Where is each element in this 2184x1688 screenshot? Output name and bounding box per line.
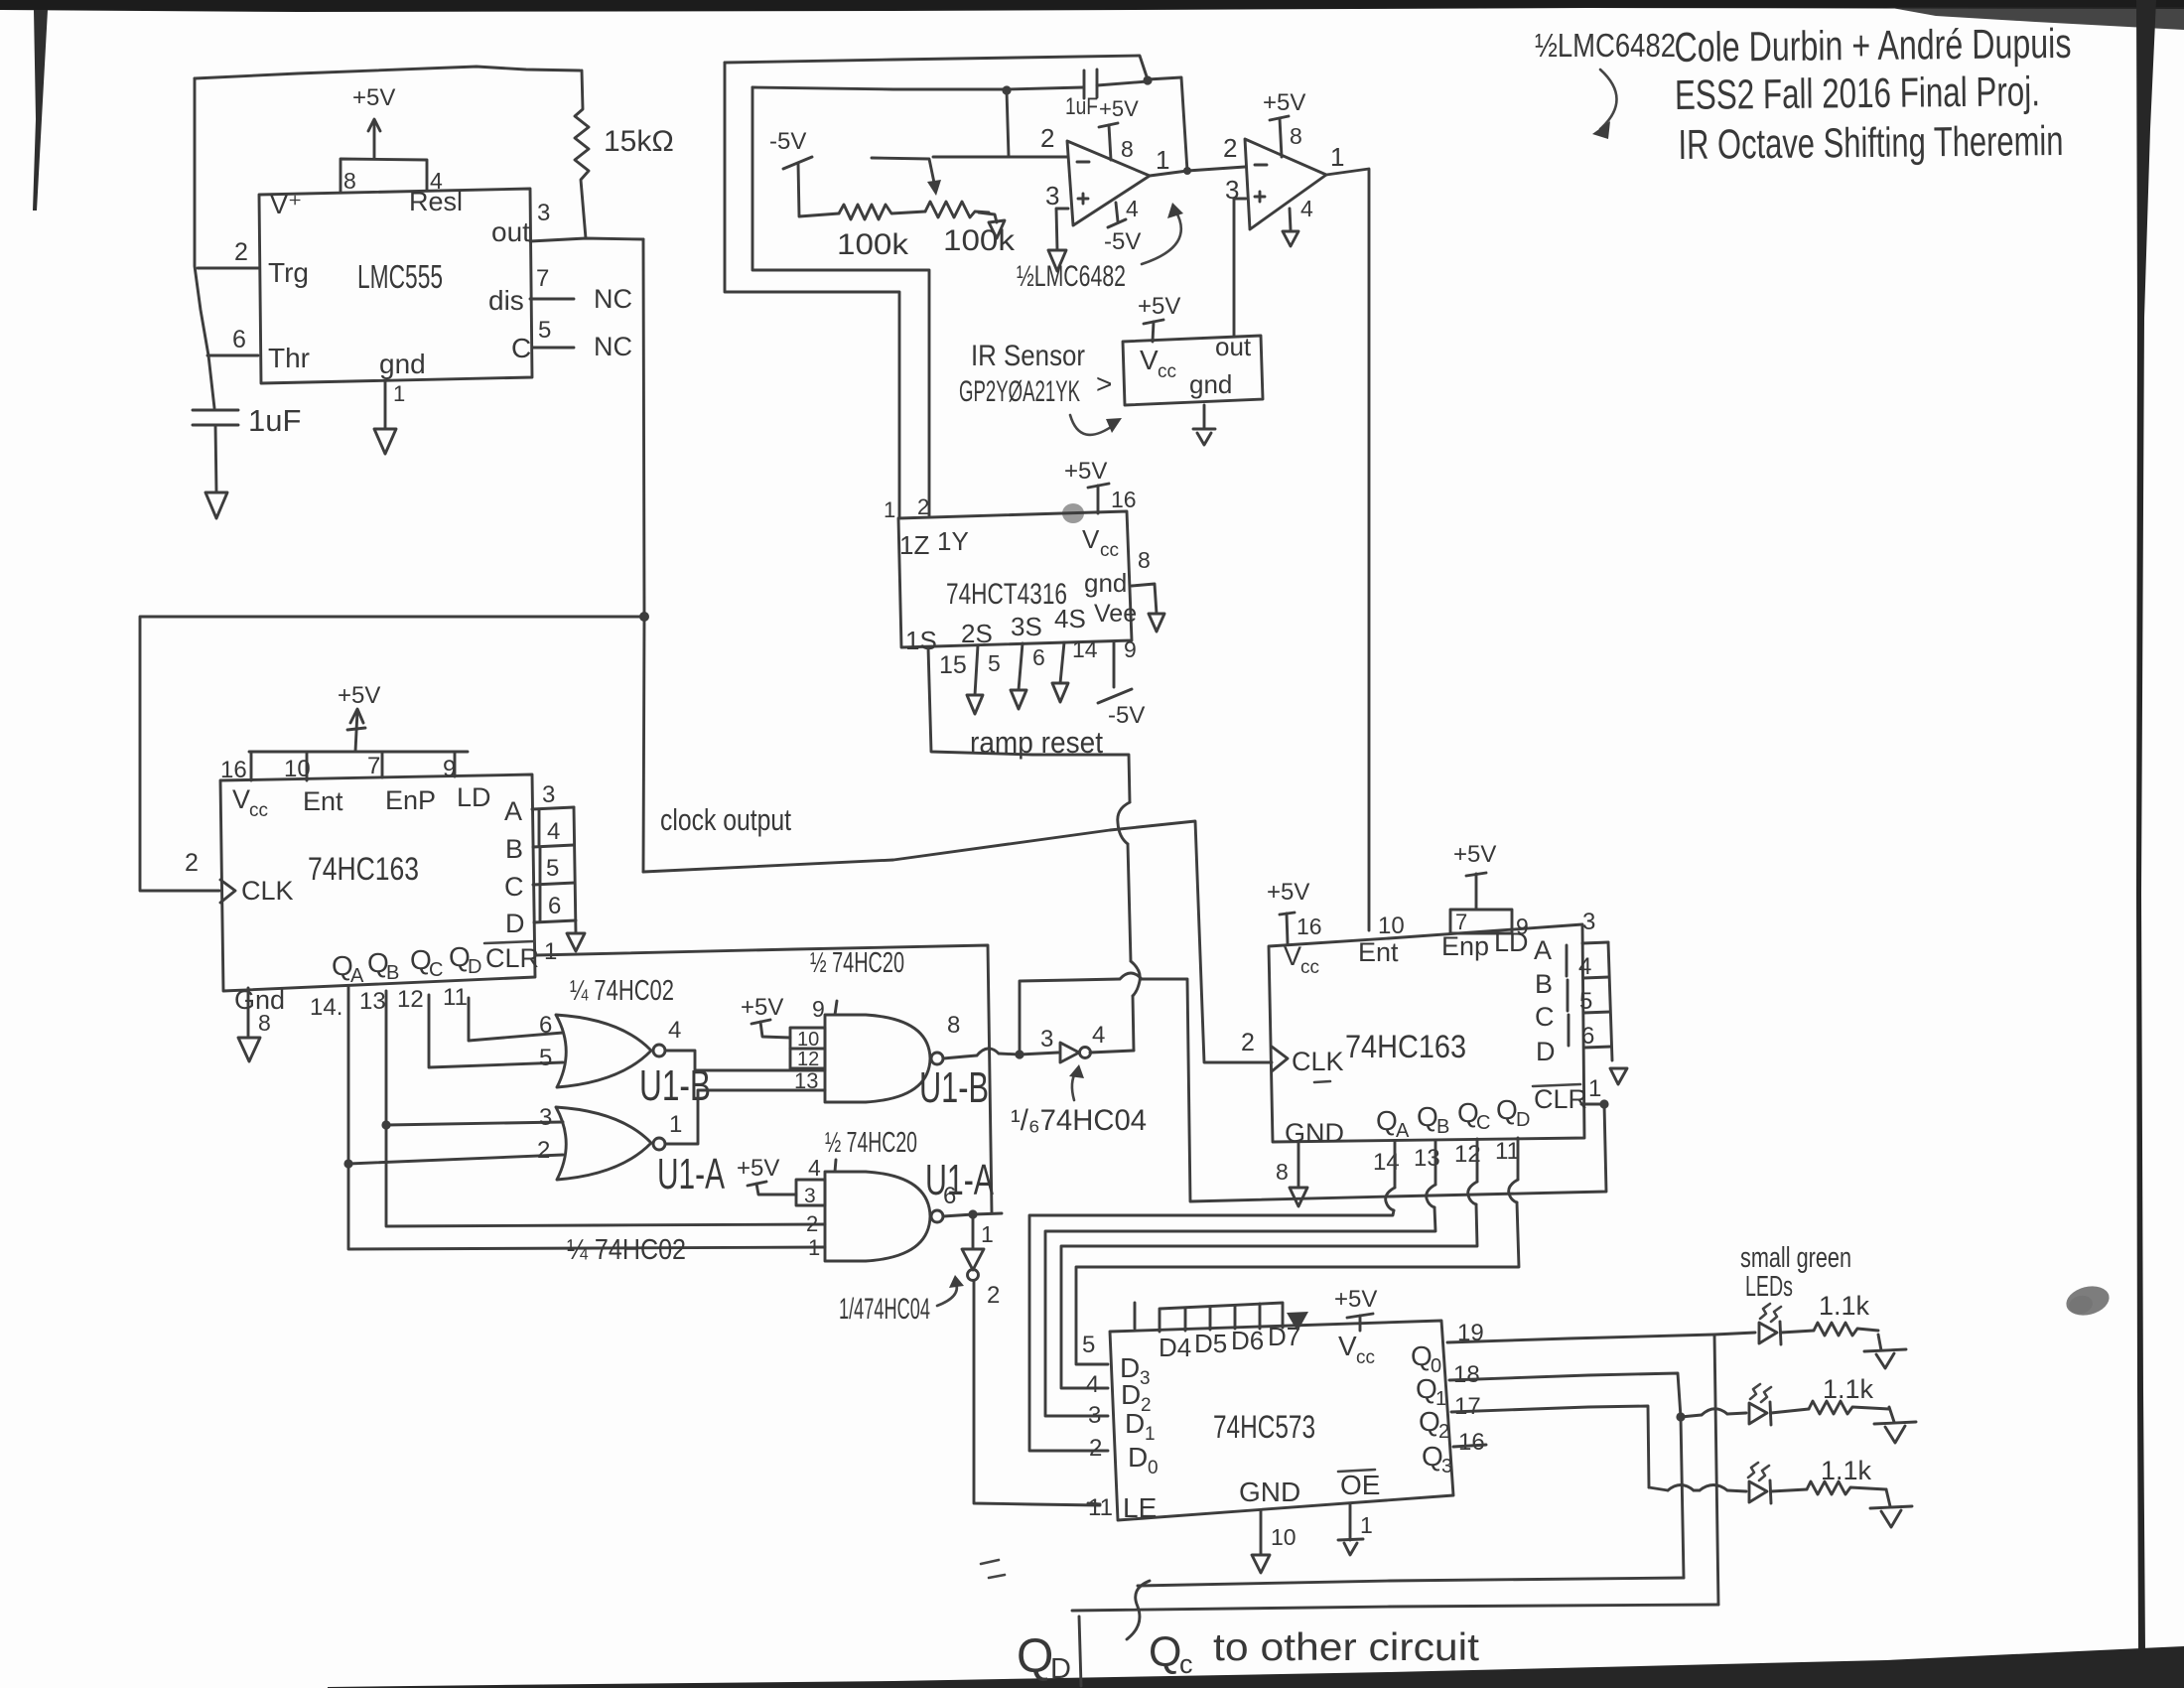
svg-text:LMC555: LMC555 (357, 258, 443, 295)
svg-text:5: 5 (539, 1045, 552, 1071)
wire: NOR-A out to NAND-B pin13 (665, 1090, 825, 1144)
svg-text:4: 4 (547, 818, 560, 845)
resistor R1 1.1k (1814, 1323, 1878, 1336)
svg-text:4: 4 (1126, 196, 1139, 221)
resistor 15k (575, 70, 589, 238)
NAND gate U1-A (74HC20) (825, 1172, 930, 1261)
wire: Trg pin 2 (198, 267, 258, 270)
svg-text:D5: D5 (1194, 1329, 1227, 1358)
svg-text:½ 74HC20: ½ 74HC20 (825, 1127, 917, 1159)
pin 6 ground (1019, 643, 1023, 690)
wire: inverting input op-amp1 (933, 156, 1067, 159)
wire: Q1 to LED2 and bottom rail (1449, 1373, 1681, 1417)
svg-text:4: 4 (1086, 1371, 1099, 1398)
ground below IR sensor (1203, 405, 1206, 429)
LED D2 (1750, 1384, 1771, 1402)
chip 74HC573 box (1110, 1321, 1453, 1520)
svg-text:16: 16 (220, 757, 247, 783)
wire: QA to 573 D0 (1394, 1141, 1397, 1188)
svg-text:10: 10 (1378, 913, 1405, 939)
svg-text:Q: Q (1411, 1340, 1433, 1371)
LED D1 (1760, 1304, 1781, 1322)
svg-text:10: 10 (1271, 1524, 1297, 1550)
svg-text:2: 2 (234, 238, 248, 266)
wire: dis NC stub (530, 298, 574, 301)
svg-text:2: 2 (987, 1282, 1000, 1309)
svg-text:IR Octave Shifting Theremin: IR Octave Shifting Theremin (1678, 117, 2063, 168)
svg-text:1: 1 (808, 1235, 820, 1260)
svg-text:Vee: Vee (1094, 600, 1137, 628)
svg-text:NC: NC (594, 332, 632, 361)
svg-text:-5V: -5V (1108, 702, 1145, 729)
node: clock column from 555 out (643, 239, 644, 872)
svg-text:3: 3 (804, 1185, 816, 1207)
inverter 1/4 74HC04 (down) (972, 1214, 975, 1249)
load ladder A-D to ground (532, 807, 574, 809)
svg-text:B: B (505, 834, 523, 864)
svg-text:½ 74HC20: ½ 74HC20 (810, 947, 904, 979)
wire: NOR-B out to NAND-B pin12 (665, 1051, 825, 1070)
svg-text:10: 10 (284, 756, 311, 782)
svg-text:c: c (1179, 1649, 1193, 1679)
svg-text:¼ 74HC02: ¼ 74HC02 (567, 1234, 686, 1266)
svg-text:3: 3 (537, 200, 550, 226)
chip 74HCT4316 box (898, 511, 1132, 647)
svg-text:2: 2 (806, 1211, 818, 1236)
tied input box 12 (790, 1049, 825, 1068)
svg-text:1uF: 1uF (248, 403, 301, 438)
svg-text:6: 6 (1581, 1023, 1594, 1050)
svg-text:small green: small green (1740, 1242, 1851, 1274)
gnd pin 8 (1132, 584, 1157, 614)
svg-text:8: 8 (1290, 123, 1302, 149)
svg-text:2: 2 (185, 849, 199, 877)
svg-text:6: 6 (232, 326, 246, 353)
wire: NAND-B out over CLR wire to inverter (943, 1055, 977, 1058)
wire: QC rail (H1) (1138, 1578, 1684, 1586)
svg-text:U1-A: U1-A (925, 1156, 994, 1204)
svg-text:D4: D4 (1159, 1333, 1191, 1362)
chip LMC555 box (259, 189, 532, 383)
chip 74HC163 #1 box (220, 774, 535, 991)
svg-text:1: 1 (669, 1111, 682, 1138)
op-amp U2-A (1/2 LMC6482) (1067, 141, 1150, 225)
wire: inverter1 output up (ramp reset drive) (1090, 1051, 1134, 1053)
svg-text:5: 5 (1082, 1332, 1095, 1358)
svg-text:Q: Q (1376, 1105, 1398, 1136)
svg-text:1uF: 1uF (1065, 93, 1098, 120)
svg-text:14.: 14. (310, 994, 342, 1021)
ground under ladder #2 (1610, 1068, 1627, 1084)
svg-text:Q: Q (1419, 1406, 1440, 1437)
svg-text:Resl: Resl (409, 187, 463, 216)
wire: inverter2 out to 573 LE (974, 1281, 1100, 1505)
ground LED1 (1878, 1335, 1881, 1350)
brace (1127, 1581, 1150, 1639)
svg-text:D: D (468, 956, 481, 978)
OE pin 1 ground (1349, 1503, 1352, 1540)
resistor R3 1.1k (1807, 1481, 1886, 1494)
ground below C1 (205, 492, 227, 518)
wire: NAND-A out junction (943, 1213, 1002, 1216)
wire: second line T2 to cap (752, 87, 1083, 89)
svg-text:NC: NC (594, 284, 632, 314)
svg-text:D: D (1121, 1379, 1141, 1410)
svg-text:CLR: CLR (1534, 1084, 1587, 1114)
scan border left wedge (33, 10, 48, 211)
svg-text:16: 16 (1111, 487, 1137, 512)
svg-text:out: out (491, 216, 530, 247)
svg-text:1: 1 (1330, 142, 1344, 172)
svg-text:16: 16 (1297, 914, 1322, 939)
svg-text:D: D (505, 909, 525, 938)
svg-text:out: out (1215, 332, 1252, 361)
scan border right strip (2136, 0, 2156, 1650)
resistor 100k pot (925, 202, 989, 217)
+5V supply over 555 (373, 121, 376, 159)
svg-text:GP2YØA21YK: GP2YØA21YK (959, 375, 1080, 408)
pin 9 to -5V (1113, 641, 1116, 687)
svg-text:11: 11 (1495, 1138, 1520, 1165)
svg-text:74HCT4316: 74HCT4316 (946, 578, 1067, 611)
wire: Thr pin 6 (207, 354, 258, 357)
svg-text:4: 4 (1300, 196, 1313, 221)
svg-text:V: V (1338, 1331, 1357, 1361)
svg-text:7: 7 (536, 265, 549, 292)
svg-text:8: 8 (1138, 547, 1151, 573)
svg-text:+5V: +5V (1334, 1286, 1377, 1313)
gnd pin 8 counter1 (247, 988, 250, 1038)
svg-text:11: 11 (443, 984, 468, 1011)
svg-text:15kΩ: 15kΩ (604, 125, 674, 158)
svg-text:8: 8 (1276, 1159, 1289, 1185)
svg-text:3: 3 (1088, 1402, 1101, 1429)
svg-text:V: V (1284, 941, 1301, 971)
svg-text:D: D (1536, 1037, 1556, 1066)
svg-text:U1-A: U1-A (657, 1150, 725, 1198)
svg-text:D: D (1516, 1109, 1530, 1131)
svg-text:3: 3 (1045, 181, 1059, 211)
svg-text:2: 2 (1241, 1029, 1255, 1056)
svg-text:Q: Q (1149, 1628, 1181, 1676)
svg-text:C: C (1476, 1112, 1490, 1134)
svg-text:2: 2 (917, 494, 929, 519)
clock input triangle (220, 880, 235, 903)
svg-text:-5V: -5V (1104, 228, 1141, 255)
svg-text:1.1k: 1.1k (1819, 1291, 1870, 1321)
svg-text:1/474HC04: 1/474HC04 (839, 1293, 930, 1326)
tied input box 10 (790, 1028, 825, 1049)
wire: Q3 stub pin16 (1453, 1445, 1486, 1447)
svg-text:V: V (1140, 345, 1159, 375)
scan border bottom wedge (328, 1646, 2184, 1688)
svg-text:LD: LD (457, 782, 491, 812)
svg-text:1Y: 1Y (937, 526, 969, 556)
curved arrow to IR sensor (1070, 415, 1114, 435)
power pin 8 op-amp1 (1099, 123, 1118, 127)
svg-text:A: A (1396, 1120, 1410, 1142)
svg-text:3: 3 (1140, 1368, 1151, 1389)
svg-text:100k: 100k (943, 224, 1016, 257)
svg-text:A: A (504, 796, 522, 826)
svg-text:+5V: +5V (1138, 293, 1180, 320)
svg-text:3S: 3S (1011, 612, 1042, 641)
arrow pointing at inverter1 (1072, 1071, 1076, 1100)
node: inverting node junction (1002, 85, 1011, 94)
wire: out pin3 to 15k and clock column (530, 238, 643, 241)
power pin 8 op-amp2 (1270, 116, 1289, 120)
svg-text:D: D (1050, 1653, 1071, 1685)
pin 14 ground (1060, 642, 1064, 683)
wire: loop to left counter clk (140, 617, 644, 891)
svg-text:12: 12 (397, 986, 424, 1013)
wire: QD to 573 D3 (1517, 1138, 1520, 1180)
svg-text:+5V: +5V (352, 84, 395, 111)
V+/Reset top bracket (341, 159, 427, 193)
svg-text:4S: 4S (1054, 604, 1086, 633)
svg-text:cc: cc (1356, 1347, 1375, 1368)
wire: QD to NOR-B in6 (469, 998, 563, 1041)
svg-text:7: 7 (367, 753, 380, 779)
svg-text:V: V (1082, 524, 1100, 554)
wire: op-amp2 out down to counter Ent (1326, 169, 1369, 930)
svg-text:dis: dis (488, 285, 524, 316)
svg-text:4: 4 (1578, 953, 1591, 980)
svg-text:V: V (232, 784, 250, 814)
svg-text:17: 17 (1454, 1393, 1481, 1420)
svg-text:9: 9 (812, 996, 825, 1022)
svg-text:GND: GND (1285, 1118, 1344, 1148)
scan border top (0, 0, 2184, 12)
curved arrow to op-amp1 (1142, 211, 1181, 264)
svg-text:16: 16 (1458, 1429, 1485, 1456)
svg-text:4: 4 (668, 1017, 681, 1044)
svg-text:1S: 1S (905, 626, 937, 655)
pin 9 tick (835, 1001, 837, 1015)
svg-text:13: 13 (794, 1068, 818, 1093)
wire: QC to 573 D2 (1476, 1139, 1479, 1182)
svg-text:3: 3 (1225, 175, 1239, 205)
svg-text:cc: cc (1100, 540, 1119, 561)
svg-text:gnd: gnd (379, 349, 426, 379)
svg-text:Q: Q (1417, 1101, 1438, 1132)
svg-text:12: 12 (797, 1049, 819, 1070)
wire: QB to NOR-A in3 and NAND-A in2 (386, 991, 825, 1226)
svg-text:1: 1 (1360, 1512, 1373, 1538)
pin 5 ground (975, 645, 978, 695)
op-amp U2-B (1/2 LMC6482) (1245, 139, 1326, 229)
svg-text:A: A (350, 965, 364, 987)
svg-text:Ent: Ent (303, 786, 343, 816)
svg-text:LEDs: LEDs (1745, 1271, 1793, 1303)
svg-text:-5V: -5V (769, 128, 806, 155)
svg-text:8: 8 (1121, 136, 1134, 162)
svg-text:74HC573: 74HC573 (1213, 1409, 1315, 1445)
svg-text:9: 9 (1124, 636, 1137, 662)
IR sensor GP2Y0A21YK box (1123, 336, 1263, 405)
svg-text:1Z: 1Z (899, 530, 929, 560)
svg-text:6: 6 (539, 1012, 552, 1039)
svg-text:C: C (504, 872, 524, 902)
svg-text:¹/₆74HC04: ¹/₆74HC04 (1011, 1104, 1147, 1137)
wire: Q1 drop to bottom rail (1681, 1417, 1684, 1578)
svg-text:1: 1 (1156, 145, 1169, 175)
svg-text:cc: cc (1158, 361, 1176, 382)
unused input box chain (1160, 1303, 1283, 1332)
svg-text:+5V: +5V (1064, 458, 1107, 485)
wire: CLR feedback from NAND U1-A (535, 945, 992, 1213)
svg-text:cc: cc (249, 800, 268, 821)
svg-text:EnP: EnP (385, 785, 436, 815)
svg-text:CLR: CLR (485, 943, 539, 973)
svg-text:1: 1 (1588, 1075, 1601, 1102)
svg-text:C: C (429, 959, 443, 981)
wire: 555 left rail to Trg/Thr/cap (195, 78, 214, 408)
svg-text:2: 2 (537, 1137, 550, 1164)
svg-text:3: 3 (1582, 909, 1595, 935)
resistor R2 1.1k (1809, 1401, 1889, 1414)
svg-text:0: 0 (1148, 1458, 1159, 1478)
svg-text:8: 8 (947, 1012, 960, 1039)
svg-text:2: 2 (1438, 1421, 1449, 1443)
svg-text:3: 3 (539, 1104, 552, 1131)
smudge on 74HCT4316 top edge (1062, 503, 1084, 523)
stray ink smudge right (2063, 1282, 2112, 1320)
svg-text:2: 2 (1089, 1435, 1102, 1462)
svg-text:5: 5 (1579, 988, 1592, 1015)
svg-text:B: B (1436, 1116, 1449, 1138)
svg-text:+5V: +5V (737, 1155, 779, 1182)
capacitor C1 1uF (193, 409, 238, 412)
svg-text:OE: OE (1340, 1470, 1380, 1500)
pin number 4 tick (835, 1160, 836, 1172)
svg-text:gnd: gnd (1084, 568, 1127, 598)
svg-text:+5V: +5V (1263, 89, 1305, 116)
power pin 4 op-amp1 to -5V (1116, 203, 1118, 221)
svg-text:8: 8 (258, 1010, 271, 1036)
tied input box 3 (796, 1180, 825, 1205)
svg-text:+5V: +5V (1267, 879, 1309, 906)
svg-text:15: 15 (939, 651, 967, 679)
svg-text:74HC163: 74HC163 (1345, 1029, 1466, 1064)
svg-text:4: 4 (1092, 1022, 1105, 1049)
svg-text:1.1k: 1.1k (1823, 1374, 1874, 1404)
svg-text:3: 3 (1040, 1026, 1053, 1053)
wire: QB to 573 D1 (1434, 1140, 1437, 1185)
svg-text:cc: cc (1300, 957, 1319, 978)
svg-text:LD: LD (1494, 927, 1529, 957)
wire: 555 feedback top loop (195, 67, 580, 78)
svg-text:5: 5 (546, 855, 559, 882)
svg-text:1: 1 (884, 497, 895, 522)
svg-text:U1-B: U1-B (639, 1061, 711, 1110)
svg-text:Cole Durbin + André Dupuis: Cole Durbin + André Dupuis (1674, 20, 2071, 70)
wire: op-amp1 out to op-amp2 (1150, 167, 1245, 176)
ground arrow after pot (979, 212, 997, 222)
svg-text:1: 1 (981, 1221, 994, 1247)
svg-text:3: 3 (542, 781, 555, 808)
svg-text:18: 18 (1453, 1361, 1480, 1388)
wire: clock output line (643, 821, 1272, 1062)
svg-text:6: 6 (548, 893, 561, 919)
LED D3 (1748, 1463, 1769, 1480)
power pin 4 op-amp2 (1290, 209, 1291, 229)
ground under ladder (567, 933, 585, 951)
wire: QC to NOR-B in5 (429, 995, 563, 1067)
svg-text:+5V: +5V (741, 994, 783, 1021)
gnd pin 10 (1260, 1510, 1263, 1555)
svg-text:B: B (386, 962, 399, 984)
wire: top feedback line T1 (725, 56, 1148, 79)
svg-text:LE: LE (1123, 1492, 1157, 1523)
wire: QA to NOR-A in2 and NAND-A in1 (348, 987, 825, 1249)
svg-text:A: A (1534, 935, 1552, 965)
NAND gate U1-B (74HC20) (825, 1015, 930, 1102)
ground LED2 (1889, 1407, 1894, 1422)
svg-text:2S: 2S (961, 619, 993, 648)
node: cap right junction (1143, 75, 1152, 84)
svg-text:+5V: +5V (1453, 841, 1496, 868)
svg-text:ESS2 Fall 2016 Final Proj.: ESS2 Fall 2016 Final Proj. (1675, 68, 2040, 118)
svg-text:3: 3 (1441, 1456, 1452, 1477)
svg-text:IR Sensor: IR Sensor (971, 340, 1085, 372)
svg-text:D6: D6 (1231, 1326, 1264, 1355)
svg-text:C: C (1535, 1002, 1555, 1032)
svg-text:gnd: gnd (1189, 369, 1232, 399)
svg-text:100k: 100k (837, 228, 909, 261)
svg-text:U1-B: U1-B (919, 1063, 989, 1112)
ground triangle on box chain (1287, 1312, 1308, 1332)
ground below 555 (374, 429, 396, 454)
svg-text:D: D (1128, 1442, 1148, 1473)
svg-text:Q: Q (1422, 1441, 1443, 1472)
title text (1674, 20, 2072, 168)
svg-text:13: 13 (359, 988, 386, 1015)
wire: left verticals down to 4316 (725, 63, 899, 517)
svg-text:Q: Q (1416, 1373, 1437, 1404)
wire: Q0 drop to bottom rail (1714, 1335, 1718, 1605)
curved arrow from top label (1600, 70, 1617, 129)
svg-text:+5V: +5V (338, 682, 380, 709)
wire: C NC stub (532, 347, 574, 350)
svg-text:11: 11 (1088, 1494, 1113, 1521)
wire: Q2 to LED3 (1451, 1406, 1649, 1487)
svg-text:1: 1 (393, 381, 405, 406)
svg-text:Q: Q (1496, 1094, 1518, 1125)
svg-text:GND: GND (1239, 1477, 1300, 1507)
wire: 555 gnd pin1 (384, 381, 387, 429)
svg-text:D: D (1125, 1408, 1145, 1439)
svg-text:V⁺: V⁺ (270, 190, 302, 219)
svg-text:5: 5 (988, 650, 1001, 676)
svg-text:+5V: +5V (1099, 96, 1139, 121)
wire: QD rail (H2) (1072, 1605, 1718, 1611)
svg-text:Enp: Enp (1441, 931, 1489, 961)
resistor 100k fixed (839, 205, 925, 219)
pin 3 ground op-amp1 (1056, 209, 1068, 250)
+5V bus bar (249, 751, 468, 754)
stray pen dashes (981, 1560, 999, 1564)
svg-text:8: 8 (343, 168, 356, 194)
svg-text:1.1k: 1.1k (1821, 1456, 1872, 1485)
wire: Q0 to LED1 (1447, 1333, 1755, 1342)
svg-text:2: 2 (1223, 133, 1237, 163)
wire: LE pin 11 entry (1088, 1503, 1100, 1504)
chip 74HC163 #2 box (1269, 924, 1584, 1142)
svg-text:C: C (511, 333, 531, 363)
svg-text:1: 1 (544, 938, 557, 965)
wire: ramp reset from pin15 to inverter output (928, 647, 1130, 802)
